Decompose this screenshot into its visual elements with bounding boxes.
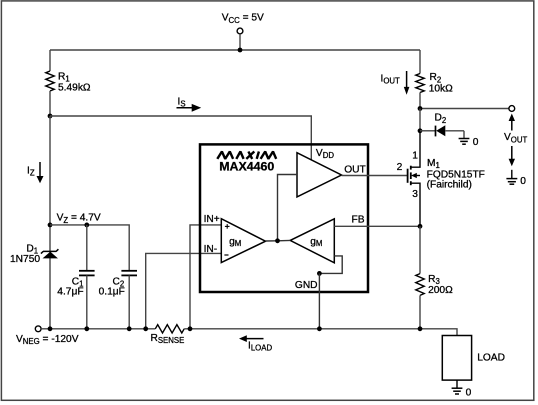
op-amp U1 MAX4460 IC box	[200, 144, 368, 292]
svg-text:IN-: IN-	[204, 244, 218, 255]
junction GND/bus	[317, 326, 322, 331]
junction R2/VOUT node	[418, 106, 423, 111]
svg-text:IN+: IN+	[204, 214, 220, 225]
svg-text:4.7μF: 4.7μF	[57, 287, 83, 298]
svg-text:VZ = 4.7V: VZ = 4.7V	[57, 213, 101, 225]
wire IN- to bus	[146, 253, 222, 328]
svg-text:VCC = 5V: VCC = 5V	[222, 13, 264, 25]
label IS with arrow	[177, 96, 202, 111]
wire VZ horizontal	[50, 225, 129, 271]
svg-text:OUT: OUT	[344, 165, 366, 176]
node VZ junction	[48, 223, 53, 228]
junction R3/bus	[418, 326, 423, 331]
svg-text:200Ω: 200Ω	[428, 285, 453, 296]
svg-text:0: 0	[466, 388, 472, 399]
resistor R1	[46, 50, 91, 116]
capacitor C2	[99, 271, 137, 329]
svg-text:LOAD: LOAD	[477, 353, 505, 364]
transconductance amp gm left	[221, 219, 265, 263]
junction FB node	[418, 224, 423, 229]
resistor RSENSE	[151, 325, 185, 345]
transconductance amp gm right	[290, 219, 334, 263]
resistor R2	[416, 50, 453, 109]
label ILOAD with arrow	[239, 335, 272, 352]
svg-text:MAX4460: MAX4460	[219, 160, 274, 174]
wire GND pin to bus	[318, 273, 320, 328]
junction C1/bus	[84, 326, 89, 331]
wire IS line to VDD pin	[50, 116, 311, 160]
wire VCC to top bus	[239, 34, 241, 50]
svg-text:0.1μF: 0.1μF	[99, 287, 125, 298]
svg-text:GND: GND	[295, 280, 318, 291]
svg-text:2: 2	[397, 162, 403, 173]
diode D2	[420, 113, 464, 137]
wire top bus	[50, 49, 420, 51]
op-amp output buffer	[297, 148, 366, 197]
wire IN+ to bus	[190, 225, 221, 329]
ground 0 at LOAD	[452, 380, 472, 399]
wire bottom bus right of RSENSE	[184, 329, 457, 336]
junction C2/bus	[127, 326, 132, 331]
LOAD box	[442, 336, 505, 381]
svg-text:10kΩ: 10kΩ	[429, 83, 453, 94]
svg-text:FB: FB	[352, 215, 365, 226]
svg-text:(Fairchild): (Fairchild)	[427, 180, 472, 191]
label IOUT with arrow	[381, 71, 410, 95]
svg-text:0: 0	[473, 137, 479, 148]
label MAXIM logo	[217, 152, 276, 159]
wire FB to source node	[334, 225, 420, 227]
svg-text:1: 1	[412, 150, 418, 161]
svg-text:0: 0	[520, 176, 526, 187]
wire left branch vertical	[49, 116, 51, 329]
junction internal node	[275, 238, 280, 243]
svg-text:5.49kΩ: 5.49kΩ	[58, 83, 91, 94]
svg-text:1N750: 1N750	[10, 254, 40, 265]
node VNEG terminal	[16, 326, 79, 346]
label VOUT with arrows	[504, 114, 527, 167]
node R1 bottom junction	[48, 114, 53, 119]
junction IN- wire/bus	[143, 326, 148, 331]
junction IN+ wire/bus	[188, 326, 193, 331]
capacitor C1	[57, 223, 94, 329]
wire OUT to gate	[342, 175, 408, 177]
diode D1 zener 1N750	[10, 243, 58, 265]
resistor R3	[416, 226, 453, 328]
label IZ with arrow	[27, 162, 44, 183]
svg-text:3: 3	[412, 189, 418, 200]
ground 0 at VOUT	[506, 170, 526, 187]
junction VCC/top bus	[238, 48, 243, 53]
junction D1/bus	[48, 326, 53, 331]
wire R2 to VOUT terminal	[420, 108, 509, 110]
node VOUT terminal	[509, 106, 515, 112]
wire drain vertical	[419, 109, 421, 132]
wire bottom bus left of RSENSE	[41, 328, 155, 330]
ground 0 at D2	[459, 131, 479, 148]
wire gm feedback loop	[319, 256, 342, 274]
junction D2 node	[418, 128, 423, 133]
transistor M1 MOSFET FQD5N15TF	[397, 131, 485, 226]
wire internal gm outputs junction to op-amp input	[266, 239, 291, 242]
node VCC terminal	[222, 13, 264, 34]
junction feedback/GND	[317, 271, 322, 276]
